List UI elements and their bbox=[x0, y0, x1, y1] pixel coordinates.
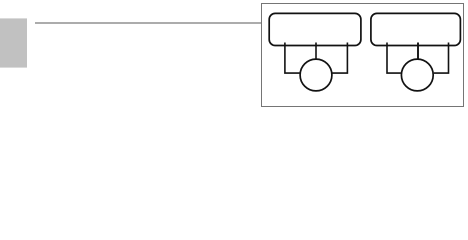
wire: B1 middle drop bbox=[315, 43, 317, 59]
wire: B1 left drop bbox=[285, 43, 300, 74]
wire: B2 left drop bbox=[387, 43, 401, 74]
node box B1 bbox=[269, 13, 361, 45]
container: outer frame bbox=[262, 4, 464, 107]
wire: B2 right drop bbox=[434, 43, 449, 74]
wire: B1 right drop bbox=[332, 43, 347, 74]
node circle C2 bbox=[401, 59, 433, 91]
node circle C1 bbox=[300, 59, 332, 91]
wire: B2 middle drop bbox=[417, 43, 419, 59]
wire: connector from gray block to container bbox=[35, 22, 262, 24]
node box B2 bbox=[371, 13, 461, 45]
node: gray block (left) bbox=[0, 18, 27, 67]
